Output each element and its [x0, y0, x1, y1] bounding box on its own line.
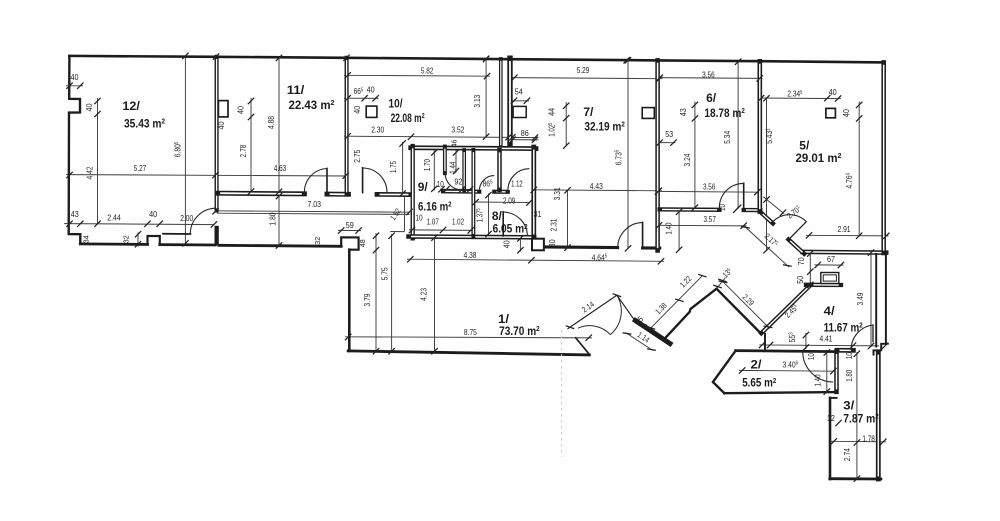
box b9 (duct/pillar/stub)	[823, 275, 836, 281]
svg-text:40: 40	[217, 121, 226, 129]
wall w52	[761, 285, 810, 333]
svg-text:6/: 6/	[706, 91, 717, 105]
svg-text:2.78: 2.78	[239, 144, 248, 157]
svg-text:2.30: 2.30	[371, 126, 384, 135]
wall w1	[69, 56, 884, 63]
svg-text:10/: 10/	[389, 96, 404, 110]
svg-text:1.40: 1.40	[813, 374, 822, 386]
svg-text:2.09: 2.09	[503, 196, 516, 205]
svg-text:1.80: 1.80	[845, 369, 854, 381]
door swing arc a11	[803, 352, 834, 383]
svg-text:53: 53	[665, 130, 673, 139]
svg-text:1.07: 1.07	[427, 218, 439, 227]
svg-text:3.24: 3.24	[683, 153, 692, 166]
svg-text:29.01 m2: 29.01 m2	[796, 151, 842, 165]
wall w25	[531, 147, 536, 237]
wall w65	[568, 295, 617, 328]
svg-text:50: 50	[796, 275, 805, 283]
wall w42	[803, 250, 887, 255]
svg-text:11.67 m2: 11.67 m2	[824, 321, 863, 335]
wall w54	[736, 351, 836, 352]
door swing arc a1	[190, 208, 216, 234]
wall w10	[326, 169, 328, 194]
svg-text:2.44: 2.44	[107, 213, 121, 222]
wall w7	[215, 57, 219, 211]
wall w44	[789, 240, 805, 254]
wall w8	[218, 191, 305, 197]
wall w53	[764, 334, 766, 350]
svg-text:32.19 m2: 32.19 m2	[584, 119, 625, 133]
svg-text:1.12: 1.12	[511, 179, 523, 188]
door swing arc a13	[578, 326, 610, 335]
svg-text:32: 32	[124, 235, 131, 243]
box b6 (duct/pillar/stub)	[826, 108, 836, 117]
svg-text:1.80: 1.80	[269, 212, 278, 225]
svg-text:35.43 m2: 35.43 m2	[124, 116, 165, 130]
door swing arc a3	[363, 168, 387, 193]
door swing arc a5	[479, 176, 494, 191]
svg-text:11/: 11/	[287, 83, 305, 97]
wall w24	[409, 234, 535, 239]
wall w23	[411, 146, 415, 238]
wall w5	[160, 243, 215, 246]
wall w27	[494, 190, 508, 194]
svg-text:5.27: 5.27	[134, 164, 147, 173]
svg-text:3.49: 3.49	[856, 292, 865, 305]
box b3 (duct/pillar/stub)	[513, 106, 526, 117]
svg-text:48: 48	[360, 239, 367, 247]
svg-text:40: 40	[367, 85, 375, 94]
wall w45	[881, 62, 886, 253]
wall w60	[830, 477, 881, 480]
door swing arc a12	[610, 295, 621, 334]
wall w66	[617, 295, 634, 320]
door swing arc a4	[445, 173, 461, 189]
wall w3	[80, 242, 147, 245]
svg-text:4.38: 4.38	[464, 251, 477, 260]
wall w63	[635, 321, 670, 344]
wall w41	[369, 106, 371, 117]
door swing arc a10	[851, 325, 873, 350]
wall w33	[544, 245, 618, 249]
svg-text:3.79: 3.79	[363, 293, 372, 306]
wall w32	[502, 212, 504, 236]
door swing arc a14	[773, 215, 806, 222]
svg-text:12/: 12/	[122, 99, 140, 113]
wall w11	[345, 58, 349, 195]
wall w38	[743, 183, 745, 210]
svg-text:40: 40	[85, 103, 94, 111]
wall w15	[348, 351, 589, 355]
svg-text:18.78 m2: 18.78 m2	[704, 106, 745, 120]
door swing arc a2	[304, 169, 327, 194]
svg-text:2.74: 2.74	[843, 448, 852, 461]
svg-text:70: 70	[797, 257, 806, 265]
svg-text:2.31: 2.31	[550, 218, 559, 231]
svg-text:4.63: 4.63	[274, 164, 287, 173]
box b1 (duct/pillar/stub)	[215, 226, 219, 246]
wall w51	[806, 283, 841, 288]
svg-text:40: 40	[237, 106, 246, 114]
svg-text:1.02: 1.02	[452, 218, 464, 227]
wall w26	[443, 189, 479, 193]
svg-text:7.87 m2: 7.87 m2	[843, 411, 879, 425]
svg-text:5.65 m2: 5.65 m2	[742, 376, 776, 390]
svg-text:46: 46	[452, 139, 459, 147]
wall w48	[886, 343, 888, 345]
wall w40	[757, 61, 762, 211]
svg-text:30: 30	[548, 239, 557, 247]
wall w16	[576, 338, 590, 355]
wall w29	[462, 150, 466, 191]
svg-text:40: 40	[842, 109, 851, 117]
svg-text:7/: 7/	[583, 105, 594, 119]
box b8 (duct/pillar/stub)	[821, 273, 839, 284]
svg-text:54: 54	[515, 87, 523, 96]
wall w22	[411, 145, 536, 151]
wall w30	[471, 150, 475, 236]
svg-text:22.43 m2: 22.43 m2	[289, 98, 335, 112]
svg-text:43: 43	[679, 108, 688, 116]
wall w20	[507, 58, 512, 145]
svg-text:12: 12	[827, 414, 835, 423]
svg-text:44: 44	[548, 107, 557, 115]
svg-text:3.31: 3.31	[553, 187, 562, 200]
svg-text:10: 10	[807, 353, 816, 360]
svg-text:6.16 m2: 6.16 m2	[418, 199, 452, 213]
svg-text:32: 32	[315, 237, 322, 245]
svg-text:1.44: 1.44	[449, 161, 458, 173]
svg-text:4.88: 4.88	[267, 116, 276, 129]
svg-text:3/: 3/	[843, 398, 855, 412]
svg-text:40: 40	[149, 210, 157, 219]
svg-text:3.56: 3.56	[703, 183, 716, 192]
box b4 (duct/pillar/stub)	[532, 239, 544, 251]
wall w14	[348, 250, 351, 351]
svg-text:4.23: 4.23	[419, 287, 428, 300]
svg-text:4.42: 4.42	[86, 166, 95, 179]
box b7 (duct/pillar/stub)	[366, 106, 377, 117]
svg-text:3.13: 3.13	[473, 94, 482, 107]
svg-text:43: 43	[71, 210, 79, 219]
wall w4	[148, 236, 160, 245]
svg-text:31: 31	[534, 210, 542, 219]
wall w46	[875, 254, 877, 347]
wall w47	[885, 253, 887, 344]
svg-text:1.40: 1.40	[665, 222, 674, 234]
wall w57	[834, 352, 839, 392]
wall w31	[497, 150, 502, 190]
wall w21	[516, 106, 518, 117]
svg-text:40: 40	[71, 73, 79, 82]
wall w12	[219, 245, 341, 246]
dimension tick marks	[66, 53, 889, 482]
svg-text:2/: 2/	[751, 358, 763, 372]
svg-text:9/: 9/	[418, 180, 429, 194]
wall w28	[443, 147, 447, 174]
svg-text:10: 10	[416, 214, 423, 223]
svg-text:5.29: 5.29	[577, 66, 590, 75]
svg-text:4.41: 4.41	[820, 334, 833, 343]
wall w36	[655, 60, 660, 250]
svg-text:73.70 m2: 73.70 m2	[499, 324, 540, 338]
wall w64	[666, 289, 761, 338]
wall w58	[830, 397, 837, 399]
svg-text:40: 40	[353, 105, 362, 113]
wall w59	[829, 398, 832, 479]
wall w56	[872, 325, 874, 342]
svg-text:4/: 4/	[824, 304, 836, 318]
svg-text:3.57: 3.57	[703, 215, 716, 224]
box b5 (duct/pillar/stub)	[642, 108, 654, 119]
svg-text:5.82: 5.82	[421, 66, 434, 75]
wall w6	[163, 233, 190, 235]
wall w9	[327, 192, 348, 197]
svg-text:7.03: 7.03	[307, 200, 321, 209]
svg-text:2.75: 2.75	[353, 149, 362, 162]
wall w67	[789, 222, 807, 240]
wall w62	[724, 392, 836, 393]
svg-text:10: 10	[718, 204, 727, 211]
svg-text:1.75: 1.75	[389, 161, 398, 173]
svg-text:2.00: 2.00	[180, 214, 193, 223]
paper fold line	[561, 330, 563, 457]
door swing arc a8	[618, 222, 643, 247]
door swing arc a6	[508, 169, 530, 191]
svg-text:1.78: 1.78	[862, 435, 875, 444]
svg-text:8.75: 8.75	[464, 328, 477, 337]
svg-text:2.91: 2.91	[838, 225, 851, 234]
wall w17	[362, 168, 364, 193]
svg-text:22.08 m2: 22.08 m2	[391, 111, 425, 125]
wall w35	[643, 246, 660, 249]
svg-text:34: 34	[84, 235, 91, 243]
wall w43	[761, 212, 773, 223]
svg-text:1.70: 1.70	[423, 159, 432, 171]
svg-text:5.75: 5.75	[381, 267, 390, 280]
wall w61	[713, 351, 736, 394]
wall w50	[876, 352, 881, 479]
wall w13	[341, 237, 358, 249]
svg-text:67: 67	[827, 255, 835, 264]
wall w39	[744, 208, 761, 212]
svg-text:10: 10	[845, 352, 854, 359]
wall w2	[69, 56, 81, 243]
wall w55	[837, 348, 853, 353]
svg-text:3.52: 3.52	[451, 126, 464, 135]
svg-text:40: 40	[829, 88, 837, 97]
svg-text:6.05 m2: 6.05 m2	[493, 222, 528, 236]
svg-text:10: 10	[437, 180, 444, 189]
svg-text:92: 92	[454, 177, 462, 186]
svg-text:3.56: 3.56	[702, 71, 715, 80]
svg-text:86: 86	[521, 129, 529, 138]
wall w49	[874, 344, 886, 355]
wall w19	[499, 59, 503, 147]
svg-text:40: 40	[502, 240, 511, 248]
dimension lines	[64, 56, 889, 479]
svg-text:59: 59	[346, 221, 354, 230]
door swing arc a7	[503, 212, 527, 236]
svg-text:4.43: 4.43	[590, 182, 603, 191]
svg-text:5.34: 5.34	[723, 130, 732, 143]
wall w37	[660, 207, 720, 212]
wall w34	[642, 222, 644, 248]
box b2 (duct/pillar/stub)	[218, 101, 228, 117]
door swing arc a9	[719, 183, 743, 209]
wall w18	[377, 192, 411, 197]
